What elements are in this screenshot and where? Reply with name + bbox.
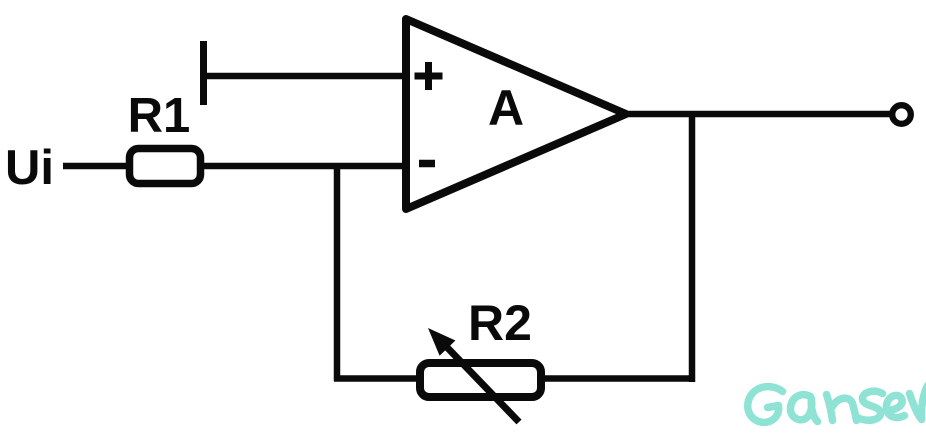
svg-text:R2: R2 (468, 295, 532, 351)
wire R1 to inverting input (200, 163, 408, 170)
terminal bar at noninverting input (200, 41, 207, 105)
wire feedback right vertical (689, 114, 696, 382)
variable resistor arrowhead (428, 328, 455, 356)
wire R2 to right vertical (541, 375, 695, 382)
wire bottom left to R2 (334, 375, 420, 382)
wire feedback tap down from inverting input node (334, 163, 341, 381)
op-amp A triangle (406, 19, 626, 209)
wire output (626, 111, 892, 118)
watermark Ganser (748, 386, 926, 423)
op-amp plus input sign (415, 73, 443, 80)
variable resistor arrow shaft (440, 340, 519, 422)
resistor R1 (130, 149, 201, 184)
wire Ui to R1 (63, 163, 131, 170)
resistor R2 (variable) body (420, 363, 541, 397)
output terminal circle (892, 105, 911, 124)
svg-text:Ui: Ui (5, 141, 54, 195)
svg-text:A: A (488, 80, 524, 136)
wire bar to noninverting input (203, 73, 408, 80)
op-amp minus input sign (419, 160, 435, 168)
svg-text:R1: R1 (128, 89, 191, 143)
